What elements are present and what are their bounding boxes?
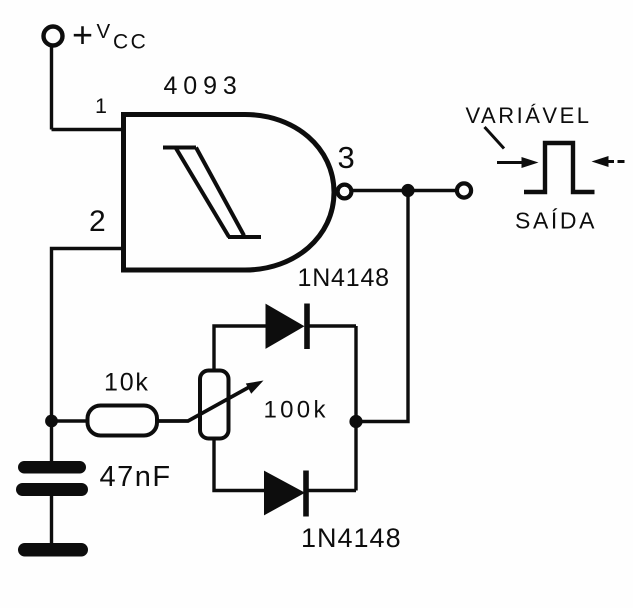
capacitor C1 47nF bottom plate bbox=[16, 483, 88, 496]
node diode junction bbox=[349, 415, 362, 428]
output terminal bbox=[457, 183, 471, 197]
wire bottom diode branch bbox=[214, 439, 356, 491]
wire junction to resistor bbox=[52, 419, 89, 422]
svg-text:4093: 4093 bbox=[164, 72, 243, 100]
diode D2 1N4148 bbox=[265, 472, 305, 515]
+Vcc terminal bbox=[44, 27, 63, 46]
svg-text:3: 3 bbox=[338, 140, 355, 175]
pulse waveform bbox=[524, 143, 595, 192]
svg-text:V: V bbox=[97, 20, 111, 43]
wire resistor to wiper bbox=[157, 386, 252, 422]
svg-text:1N4148: 1N4148 bbox=[298, 264, 390, 292]
diode D1 1N4148 bbox=[266, 305, 304, 349]
ground bbox=[18, 543, 88, 557]
label +Vcc bbox=[72, 14, 148, 55]
capacitor C1 47nF top plate bbox=[18, 461, 86, 474]
node output junction bbox=[401, 184, 414, 197]
pointer line bbox=[485, 127, 505, 149]
right arrow bbox=[592, 156, 609, 167]
wire output bbox=[353, 189, 455, 192]
svg-text:+: + bbox=[72, 14, 93, 55]
wire Vcc down bbox=[50, 46, 53, 130]
resistor R1 10k bbox=[88, 406, 158, 436]
svg-text:VARIÁVEL: VARIÁVEL bbox=[466, 103, 592, 128]
wire output down to diode node bbox=[356, 191, 408, 422]
Schmitt trigger symbol bbox=[163, 148, 261, 238]
svg-text:100k: 100k bbox=[264, 397, 329, 424]
potentiometer P1 100k bbox=[200, 371, 229, 439]
NAND gate U1 4093 bbox=[124, 115, 335, 271]
svg-text:2: 2 bbox=[89, 205, 106, 238]
wire pin 2 bbox=[52, 249, 124, 422]
svg-text:SAÍDA: SAÍDA bbox=[515, 208, 597, 234]
svg-text:10k: 10k bbox=[104, 369, 150, 397]
svg-text:1: 1 bbox=[95, 94, 107, 118]
wire top diode branch bbox=[214, 326, 356, 371]
svg-text:CC: CC bbox=[113, 31, 148, 54]
wire capacitor to ground bbox=[50, 495, 53, 543]
svg-text:47nF: 47nF bbox=[100, 461, 172, 493]
wiper arrowhead bbox=[246, 381, 264, 394]
wire junction to capacitor bbox=[50, 421, 53, 461]
left arrow bbox=[497, 161, 524, 164]
wire pin 1 bbox=[52, 128, 125, 131]
node RC junction bbox=[45, 415, 58, 428]
wire diode right vertical bbox=[354, 326, 357, 491]
svg-text:1N4148: 1N4148 bbox=[301, 523, 402, 553]
inversion bubble bbox=[338, 185, 352, 199]
